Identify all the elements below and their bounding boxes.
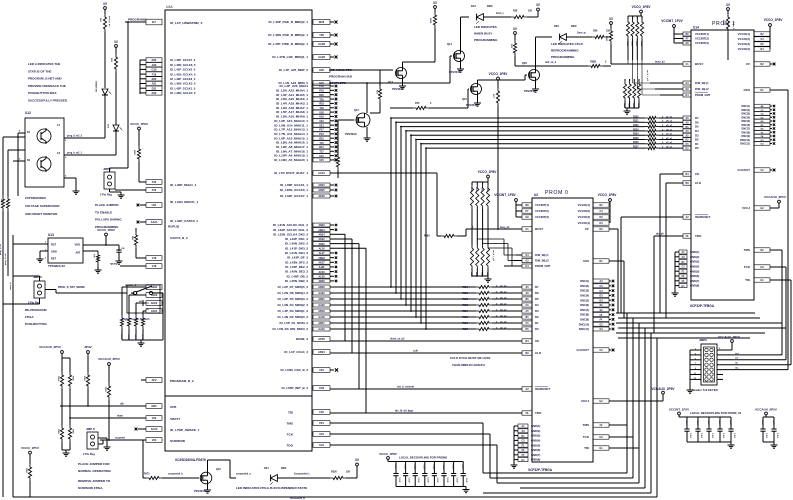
second level pulldown resistors [57,405,74,450]
svg-text:0.1UF: 0.1UF [398,478,400,484]
series resistor R38 for D13 [511,10,538,19]
PROM1 VCCINT pins [661,19,709,45]
text JMP5 note [95,203,122,229]
svg-text:IO_L41N_DK4_2: IO_L41N_DK4_2 [285,251,309,255]
svg-text:RED: RED [281,467,286,470]
svg-text:CLK: CLK [535,351,542,355]
svg-text:VCCO_1P8V: VCCO_1P8V [97,228,115,232]
U12 pin wires [13,131,116,197]
U4A address/data pin block upper [274,84,337,162]
svg-text:REMOVE JUMPER TO: REMOVE JUMPER TO [78,479,111,483]
svg-text:CF: CF [585,227,589,231]
pull resistors R394 R395 R396 [57,372,90,418]
svg-text:GND(4): GND(4) [690,265,699,269]
svg-text:VCCJ: VCCJ [742,206,750,210]
svg-text:AN23: AN23 [318,224,325,227]
svg-text:XCF32P-TFBGA: XCF32P-TFBGA [690,304,715,308]
svg-text:DNC(3): DNC(3) [580,289,589,293]
svg-text:2 Pin Reg: 2 Pin Reg [83,452,95,456]
svg-text:R362: R362 [481,187,483,193]
svg-text:P16: P16 [319,133,324,136]
svg-text:A23: A23 [152,63,157,67]
PROM0 right CF/DNC pins [579,227,624,331]
svg-text:suspended_a: suspended_a [236,474,251,476]
svg-text:AIR: AIR [76,251,81,255]
svg-text:IO_L3N_D4_MIDQ2_2: IO_L3N_D4_MIDQ2_2 [277,303,308,307]
PROGRAM_B net wire to FPGA [127,21,146,168]
PROM1 right CEO pin wire [743,88,788,370]
svg-text:AK22: AK22 [318,238,325,241]
svg-text:d3_p0: d3_p0 [500,309,507,311]
svg-text:GND(6): GND(6) [690,274,699,278]
U4A clock/control pin block lower [272,223,337,331]
svg-text:R235: R235 [633,138,639,140]
ground for JMP6 [689,387,691,390]
svg-text:IO_L40P_DK1_2: IO_L40P_DK1_2 [285,237,308,241]
svg-text:LOCAL DECOUPLING FOR PROM0: LOCAL DECOUPLING FOR PROM0 [399,456,447,460]
svg-text:D3: D3 [535,309,539,313]
svg-text:0.1UF: 0.1UF [765,433,767,439]
svg-text:D1: D1 [535,321,539,325]
svg-text:A21: A21 [152,82,157,86]
svg-text:C130: C130 [761,420,763,425]
svg-text:VCCO_1P8V: VCCO_1P8V [379,452,397,456]
svg-text:2mm_aj: 2mm_aj [577,33,586,35]
PROM0 OE/RESET pin [522,387,550,391]
svg-text:WHEN BUSY: WHEN BUSY [474,32,492,36]
svg-text:d1_p0: d1_p0 [500,321,507,323]
svg-text:RET: RET [51,257,57,261]
svg-text:IO_L30P_MHA1_1: IO_L30P_MHA1_1 [170,183,197,187]
ground for Q15 [366,135,368,138]
svg-text:PROGRAM_B NET AND: PROGRAM_B NET AND [28,77,62,81]
PROM0 RW and CMD pins [504,253,551,268]
svg-text:prog_b_m2_1: prog_b_m2_1 [67,153,83,155]
svg-text:R/W_B(L)2: R/W_B(L)2 [535,259,549,263]
svg-text:IO_L41P_DK3_2: IO_L41P_DK3_2 [285,246,308,250]
svg-text:TMS: TMS [744,248,750,252]
PROM1 GND pins [675,250,699,290]
svg-text:IO_L10N_A5_MHA20_1: IO_L10N_A5_MHA20_1 [274,158,308,162]
ground for JMP5 [120,192,122,195]
svg-text:VCCO(2): VCCO(2) [738,37,750,41]
U4A right upper pins with no-connects [268,20,337,60]
svg-text:d1_p1: d1_p1 [666,142,673,144]
svg-text:XC3SD3400A-FG676: XC3SD3400A-FG676 [175,458,206,462]
svg-text:cclk: cclk [413,350,418,353]
svg-text:VCCAUX_2P5V: VCCAUX_2P5V [39,345,61,349]
svg-text:Y26: Y26 [319,33,324,37]
svg-text:reset_b: reset_b [9,282,12,290]
svg-text:TCK: TCK [583,435,590,439]
svg-text:T17: T17 [319,150,324,153]
svg-text:2 Pin Reg: 2 Pin Reg [100,193,112,197]
svg-text:VCCINT(2): VCCINT(2) [535,209,549,213]
U4A pullup-enable pins T22 T23 [115,180,162,193]
ground for C90 [118,258,120,261]
svg-text:VCCINT(3): VCCINT(3) [695,41,709,45]
svg-text:R38B: R38B [590,61,596,64]
text LED busy programming note [474,25,498,42]
svg-text:d2_p1: d2_p1 [666,138,673,140]
svg-text:AD22: AD22 [151,301,158,305]
svg-text:VCCJ: VCCJ [581,399,589,403]
svg-text:PROGRAMB: PROGRAMB [128,18,147,22]
LED D34 suspend indicator [236,467,330,485]
U4A CCLK pin and net to PROM0 CLK [284,350,522,368]
svg-text:IO_L31P_GCLK7_1: IO_L31P_GCLK7_1 [280,194,308,198]
svg-text:PLACE JUMPER FOR: PLACE JUMPER FOR [78,462,110,466]
svg-text:IO_L42N_GCLK2_0: IO_L42N_GCLK2_0 [170,82,196,86]
svg-text:U4A: U4A [166,5,173,9]
svg-text:IO_L1P_HSWAP/M2_0: IO_L1P_HSWAP/M2_0 [170,21,203,25]
svg-text:R/W_B(L)1: R/W_B(L)1 [695,81,709,85]
U4A CCLK region pins [280,183,338,198]
svg-text:OE/RESET: OE/RESET [695,215,710,219]
PROM0 VCCO pins [578,193,618,225]
PROM0 ground symbol [513,462,515,465]
svg-text:TDO: TDO [535,411,542,415]
local decoupling caps PROM1 VCCAUX [755,408,778,443]
svg-text:IO_L65P_INIT_B_2: IO_L65P_INIT_B_2 [281,386,308,390]
ground for Q20 [535,86,537,89]
svg-text:R223: R223 [463,305,469,307]
U4A JTAG and suspend section pins [60,403,330,448]
svg-text:R/W_B(L)1: R/W_B(L)1 [535,253,549,257]
bank wires to PROM1 BUSY/RW rows [628,60,660,95]
svg-text:GND(1): GND(1) [531,424,540,428]
svg-text:VCCINT(3): VCCINT(3) [535,215,549,219]
svg-text:GND(3): GND(3) [531,434,540,438]
svg-text:VCCINT_1P2V: VCCINT_1P2V [661,19,683,23]
svg-text:330: 330 [346,471,351,474]
svg-text:D13: D13 [471,4,476,8]
svg-text:2suspended_L: 2suspended_L [294,474,311,476]
svg-text:suspended_b: suspended_b [168,474,183,476]
svg-text:tdo_fb_tdi_fpga: tdo_fb_tdi_fpga [395,410,414,413]
PROM0 BUSY pin [466,227,543,231]
svg-text:Header 7x2 KEYED: Header 7x2 KEYED [692,388,717,392]
MOSFET Q20 LED driver 3 [478,37,553,93]
svg-text:THAN 8MM IN LENGTH: THAN 8MM IN LENGTH [452,363,485,367]
svg-text:H26: H26 [319,68,324,72]
svg-text:IO_L3P_D5_MIDQ3_2: IO_L3P_D5_MIDQ3_2 [278,297,309,301]
svg-text:V18: V18 [152,264,157,268]
ground for Q13 [402,83,404,86]
left vertical rail reset sense [4,150,25,276]
svg-text:2mm_L: 2mm_L [496,13,505,15]
PROM1 ground symbol [674,290,676,293]
svg-text:0.1UF: 0.1UF [417,478,419,484]
svg-text:C103: C103 [423,465,425,470]
svg-text:IO_L5P_D1_MOSI_2: IO_L5P_D1_MOSI_2 [279,321,308,325]
svg-text:T15: T15 [319,142,324,145]
PROM1 JTAG vertical wires to header [782,250,791,365]
svg-text:DNC(6): DNC(6) [580,303,589,307]
svg-text:PDV301N: PDV301N [345,132,357,136]
svg-text:2mm_L: 2mm_L [732,22,734,30]
svg-text:TO ENABLE: TO ENABLE [95,210,112,214]
svg-text:AE26: AE26 [318,195,325,198]
svg-text:AC26: AC26 [318,271,325,274]
svg-text:PLACE JUMPER: PLACE JUMPER [95,203,119,207]
svg-text:R17: R17 [319,146,324,149]
svg-text:AF3: AF3 [319,368,324,372]
svg-text:GND(5): GND(5) [690,269,699,273]
svg-text:RED: RED [571,24,577,28]
svg-text:D22: D22 [152,91,157,95]
svg-text:U15: U15 [319,155,324,158]
bypass capacitor C90 for U13 [105,244,125,258]
VCCAUX supply for PROM0 VCCJ [651,387,675,394]
svg-text:R231: R231 [633,121,639,123]
svg-text:R344: R344 [429,18,432,24]
svg-text:AC23: AC23 [151,427,158,431]
svg-text:CEO: CEO [743,88,750,92]
svg-text:P17: P17 [319,129,324,132]
svg-text:AK27: AK27 [318,261,325,264]
svg-text:U2: U2 [534,193,538,197]
svg-text:PROM_CMT: PROM_CMT [535,264,551,268]
U4A aux pins U21 AA21 [137,203,162,225]
PROM1 VCCJ pin [742,203,779,210]
svg-text:VCCO(1): VCCO(1) [738,32,750,36]
U4A BUSY/DOUT pin and net to PROM0 [274,171,510,238]
svg-text:AA18: AA18 [318,316,325,319]
svg-text:TDI: TDI [288,411,293,415]
svg-text:VCCINT(1): VCCINT(1) [695,32,709,36]
PROM1 VCCO pins [738,18,784,51]
pull resistor for V18 [131,228,138,258]
svg-text:IO_L47P_FWE_B_MIDQ2_1: IO_L47P_FWE_B_MIDQ2_1 [268,42,308,46]
svg-text:C120: C120 [685,420,687,425]
svg-text:0.1UF: 0.1UF [776,433,778,439]
svg-text:D20: D20 [554,24,559,28]
svg-text:d0_p0: d0_p0 [500,327,507,329]
svg-text:DNC(9): DNC(9) [580,318,589,322]
ground for U13 GND pin [39,256,41,259]
svg-text:0.1UF: 0.1UF [711,433,713,439]
svg-text:T20: T20 [319,98,324,101]
svg-text:AR24: AR24 [318,350,325,354]
svg-text:A24: A24 [319,432,324,436]
svg-text:R371: R371 [127,334,129,340]
svg-text:R232: R232 [633,125,639,127]
PROM1 right CF pin no-connect [746,62,775,66]
svg-text:AP26: AP26 [318,337,325,341]
svg-text:JMP6: JMP6 [699,338,707,342]
U4A INIT_B pin and net to PROM0 OE/RESET [281,386,522,391]
svg-text:SUSPEND FPGA.: SUSPEND FPGA. [78,486,103,490]
PROM0 D7-D0 pins [522,285,539,331]
svg-text:GND(4): GND(4) [531,439,540,443]
svg-text:VCCO(4): VCCO(4) [578,221,590,225]
svg-text:Light Touch Switch: Light Touch Switch [122,317,150,321]
svg-text:IO_L5N_D0_DIN_MISO_2: IO_L5N_D0_DIN_MISO_2 [272,327,308,331]
PROM0 JTAG TMS TCK TDI pins [583,423,639,450]
svg-text:IO_L4N_D2_MIDQ0_2: IO_L4N_D2_MIDQ0_2 [277,315,308,319]
svg-text:R375: R375 [144,474,150,476]
PROM1 TDO pin [654,233,702,239]
3V pullup for Q13 drain [429,1,438,40]
svg-text:IO_L2P_D7_MIDQ5_2: IO_L2P_D7_MIDQ5_2 [278,285,309,289]
svg-text:CLK: CLK [695,181,702,185]
PROM1 RW and CMD pins [650,81,711,97]
text PROGRAM_B LED note [28,62,68,103]
svg-text:JMP 8: JMP 8 [86,427,95,431]
LED D8 green PROGRAM_B status [96,80,112,138]
svg-text:V22: V22 [319,120,324,123]
svg-text:D8 GREEN: D8 GREEN [96,80,98,92]
svg-text:RE-PROGRAM: RE-PROGRAM [25,308,47,312]
3V supply for D13 [536,3,541,11]
svg-text:VCCO(4): VCCO(4) [738,47,750,51]
svg-text:U14: U14 [693,26,699,30]
MOSFET Q14 LED driver [330,17,469,83]
svg-text:rw_b_l_p0: rw_b_l_p0 [492,250,494,261]
svg-text:STATUS OF THE: STATUS OF THE [28,69,51,73]
svg-text:d7_p1: d7_p1 [666,116,673,118]
suspend net wire and resistor R375 [143,440,199,480]
VCCAUX supply for PROM1 VCCJ [764,195,786,203]
svg-text:R207: R207 [133,150,135,156]
svg-text:LED INDICATES: LED INDICATES [329,68,352,72]
svg-text:C101: C101 [403,465,405,470]
PROM0 TDO pin [330,410,542,416]
svg-text:D0: D0 [695,146,699,150]
svg-text:V23: V23 [152,438,157,442]
PROM1 CLKOUT pin [738,168,776,172]
svg-text:COMPLETE: COMPLETE [329,81,346,85]
PROM0 CLKOUT pin [577,348,615,352]
svg-text:AB23: AB23 [318,286,325,289]
svg-text:AM24: AM24 [318,229,325,232]
PROM1 BUSY pin [611,61,703,67]
svg-text:DNC(10): DNC(10) [579,322,589,326]
ground for Q19 [207,487,209,490]
svg-text:GND(5): GND(5) [531,443,540,447]
svg-text:PROGRAM HAD: PROGRAM HAD [329,75,353,79]
svg-text:DNC(4): DNC(4) [580,294,589,298]
svg-text:D2: D2 [535,315,539,319]
svg-text:0.1UF: 0.1UF [455,478,457,484]
svg-text:DNC(1): DNC(1) [742,105,751,108]
svg-text:VCCINT(1): VCCINT(1) [535,203,549,207]
svg-text:AD25: AD25 [318,189,325,192]
svg-text:LED INDICATES CPLD: LED INDICATES CPLD [551,42,584,46]
svg-text:suspend: suspend [115,437,125,440]
svg-text:BUSY: BUSY [535,227,543,231]
svg-text:R38A: R38A [424,235,430,238]
svg-text:LED INDICATES: LED INDICATES [474,25,497,29]
svg-text:VCCO(2): VCCO(2) [578,209,590,213]
JTAG horizontal distribution band [616,313,786,338]
svg-text:AA22: AA22 [318,292,325,295]
svg-text:W26: W26 [319,20,325,24]
svg-text:IO_L65N_CSO_B_2: IO_L65N_CSO_B_2 [280,368,308,372]
svg-text:VCCO_1P8V: VCCO_1P8V [489,72,509,76]
svg-text:DNC(8): DNC(8) [742,131,751,134]
svg-text:IO_L40N_DK2_2: IO_L40N_DK2_2 [285,242,309,246]
svg-text:VCCINT(2): VCCINT(2) [695,37,709,41]
svg-text:Q15: Q15 [354,108,359,112]
svg-text:0.1UF: 0.1UF [689,433,691,439]
JTAG bus U4A TDO to chain [330,323,639,483]
svg-text:0.1UF: 0.1UF [722,433,724,439]
VCCO pull-up on PROM0 busy net [489,72,509,230]
control feeders from U4A block2 pins [330,234,366,413]
gate resistor for Q15 [333,154,340,178]
svg-text:RED: RED [487,4,493,8]
svg-text:DNC(8): DNC(8) [580,313,589,317]
LED D13 busy indicator [471,4,511,24]
svg-text:IO_L32P_CAPC0_1: IO_L32P_CAPC0_1 [170,219,198,223]
PROM0 VCCINT pins [494,193,549,219]
svg-text:IO_L46P_PGE_B_MIDQ2_1: IO_L46P_PGE_B_MIDQ2_1 [268,20,308,24]
svg-text:VCCINT_1P2V: VCCINT_1P2V [669,408,689,412]
jumper JMP9 reprogram [3,275,127,305]
svg-text:rw_b_l_p1: rw_b_l_p1 [646,70,648,81]
svg-text:PROGRAM_B_2: PROGRAM_B_2 [170,379,194,383]
text JMP8 note remove jumper [78,479,111,490]
svg-text:VCCAUX_2P5V: VCCAUX_2P5V [764,195,786,199]
svg-text:R340: R340 [722,20,725,26]
svg-text:VCCO_1P5V: VCCO_1P5V [21,446,39,450]
svg-text:GND(7): GND(7) [690,279,699,283]
svg-text:DNC(10): DNC(10) [740,139,750,142]
svg-text:LED A INDICATES THE: LED A INDICATES THE [28,62,60,66]
PROM1 D7-D0 pins [683,116,699,150]
svg-text:IO_L31N_GCLK6_DHL_2: IO_L31N_GCLK6_DHL_2 [273,223,309,227]
svg-text:IO_L46N_DB2_2: IO_L46N_DB2_2 [285,279,309,283]
svg-text:FPGA: FPGA [25,315,34,319]
svg-text:PROG_B_RST_SENSE: PROG_B_RST_SENSE [58,286,85,289]
svg-text:DNC(5): DNC(5) [742,120,751,123]
svg-text:R360: R360 [470,187,472,193]
U13 pin wires [13,244,98,256]
svg-text:busy_p1: busy_p1 [655,61,665,64]
svg-text:XCF32P-TFBGA: XCF32P-TFBGA [528,468,553,472]
svg-text:TCK: TCK [744,265,751,269]
MOSFET Q21 LED driver 2 [390,80,482,110]
svg-text:R373: R373 [141,334,143,340]
svg-text:d0_p1: d0_p1 [666,147,673,149]
svg-text:C131: C131 [772,420,774,425]
svg-text:C105: C105 [442,465,444,470]
svg-text:RUPLIB: RUPLIB [168,225,180,229]
VCCO pull-up bank near PROM0 (R360-R363) [470,170,497,209]
text LED CPLD programming note [551,42,584,59]
svg-text:d3_p1: d3_p1 [666,134,673,136]
svg-text:PULLUPS DURING: PULLUPS DURING [95,218,122,222]
svg-text:R226: R226 [463,323,469,325]
U4A mode/config pins rows [140,58,162,95]
svg-text:TDO: TDO [695,234,702,238]
svg-text:d7_p0: d7_p0 [500,285,507,287]
svg-text:C107: C107 [461,465,463,470]
svg-text:M22: M22 [151,404,157,408]
svg-text:GND(7): GND(7) [531,453,540,457]
light touch switch SW1 [122,285,163,340]
JMP6 VCCAUX pin 2 [717,335,740,350]
svg-text:IO_L1P_CCLK_2: IO_L1P_CCLK_2 [284,350,308,354]
svg-text:AC28: AC28 [318,275,325,278]
svg-text:d4_p0: d4_p0 [500,302,507,305]
svg-text:VCCAUX_2P5V: VCCAUX_2P5V [651,387,675,391]
svg-text:prog_b_m2_3: prog_b_m2_3 [67,136,83,138]
ground for PROM1 VCCAUX decoupling [773,442,775,445]
svg-text:rpump: rpump [110,263,118,266]
